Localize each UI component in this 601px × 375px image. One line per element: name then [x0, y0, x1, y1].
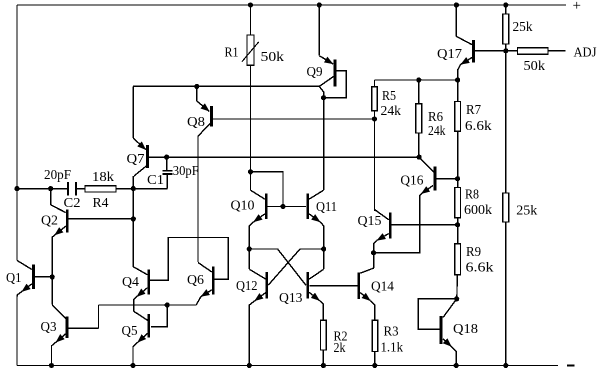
junction Q18 collector-base [454, 296, 459, 301]
transistor Q6 [212, 267, 215, 295]
capacitor C1 top plate [162, 170, 172, 172]
wire R3 bottom lead [374, 352, 376, 366]
wire to 50k resistor [506, 50, 518, 52]
wire R6 top lead [418, 80, 420, 104]
wire Q16 base [436, 178, 457, 180]
svg-text:Q16: Q16 [400, 174, 423, 189]
wire Q11 collector vertical [323, 98, 325, 191]
svg-text:20pF: 20pF [44, 168, 71, 183]
wire Q17 emitter lead [458, 64, 461, 80]
wire Q3 collector vertical [51, 277, 53, 305]
junction Q10 collector node [248, 169, 253, 174]
wire C1 top lead [166, 157, 168, 170]
wire Q2 collector vertical [50, 189, 52, 205]
junction R4 / Q7 collector / C1 [131, 186, 136, 191]
transistor Q2 [66, 209, 69, 232]
wire R7 top lead [457, 80, 459, 102]
wire 25k bottom lead [505, 44, 507, 51]
wire Q15 collector diagonal [375, 210, 389, 220]
wire Q13 emitter arrow [309, 292, 320, 300]
transistor Q10 [265, 193, 268, 219]
wire Q5 emitter arrow [138, 333, 148, 342]
wire Q18 base bracket [418, 299, 457, 330]
wire R5 bottom lead [374, 111, 376, 211]
svg-text:R7: R7 [466, 103, 481, 118]
resistor R3 [372, 320, 378, 351]
wire Q10 collector diagonal [251, 190, 265, 199]
svg-text:Q6: Q6 [187, 273, 204, 288]
transistor Q1 [32, 264, 35, 289]
junction Q9 base-collector [321, 95, 326, 100]
svg-text:50k: 50k [261, 50, 285, 65]
wire Q13 collector diagonal [309, 269, 324, 279]
junction Q3 emitter rail [49, 363, 54, 368]
junction ADJ rail bottom [503, 363, 508, 368]
svg-text:C2: C2 [64, 196, 81, 211]
junction Q8 emitter [194, 84, 199, 89]
wire Q16 collector diagonal [419, 157, 434, 172]
wire Q7 base [149, 156, 419, 158]
wire left rail upper [16, 5, 18, 260]
wire Q9 base bracket [324, 71, 347, 98]
junction Q12 collector node [247, 246, 252, 251]
wire ADJ rail vertical [505, 51, 507, 193]
wire Q11 emitter lead [320, 222, 324, 249]
wire Q18 emitter arrow [443, 339, 451, 347]
transistor Q7 [146, 145, 149, 168]
wire Q12 collector diagonal [249, 269, 266, 279]
wire Q8 collector diagonal [198, 124, 210, 137]
svg-text:R3: R3 [384, 325, 399, 340]
wire Q13 emitter lead [320, 301, 324, 321]
wire Q12 base cross link [268, 249, 324, 285]
transistor Q14 [357, 272, 360, 298]
wire Q15 base [392, 224, 458, 226]
resistor 25k lower [503, 193, 509, 222]
resistor R2 [321, 320, 327, 350]
svg-text:Q7: Q7 [127, 152, 145, 167]
junction left rail y189 [14, 186, 19, 191]
wire Q2 base [69, 218, 134, 220]
junction Q9 emitter top [317, 2, 322, 7]
transistor Q18 [440, 316, 443, 344]
wire Q17 collector vertical [455, 5, 457, 36]
wire R8 top lead [457, 179, 459, 188]
svg-text:1.1k: 1.1k [381, 341, 404, 356]
wire Q14 emitter arrow [360, 293, 370, 301]
svg-text:25k: 25k [516, 204, 537, 219]
wire Q15 emitter lead [374, 240, 377, 252]
wire Q3 base riser [98, 305, 100, 328]
wire top supply rail [17, 4, 566, 6]
wire Q3 base [68, 327, 98, 329]
wire ADJ lead [548, 50, 566, 52]
wire R9 bottom lead [456, 275, 458, 299]
wire 25k lower bottom lead [505, 222, 507, 366]
junction Q5 emitter rail [130, 363, 135, 368]
svg-text:R8: R8 [465, 188, 479, 203]
wire C2 to R4 [77, 188, 85, 190]
junction Q1 base / Q2 emitter [50, 274, 55, 279]
svg-text:Q14: Q14 [371, 280, 394, 295]
svg-text:Q10: Q10 [231, 199, 255, 214]
transistor Q13 [306, 272, 309, 299]
wire left to C2 [17, 188, 67, 190]
transistor Q4 [147, 270, 150, 295]
wire Q9 emitter vertical [318, 5, 320, 56]
svg-text:600k: 600k [464, 203, 492, 218]
wire Q5 collector diagonal [134, 311, 148, 320]
wire Q17 emitter arrow [461, 58, 472, 65]
wire Q18 collector diagonal [443, 299, 457, 318]
junction 25k top [503, 2, 508, 7]
svg-text:Q1: Q1 [6, 271, 22, 286]
svg-text:Q2: Q2 [41, 214, 58, 229]
wire Q1 base [35, 276, 52, 278]
wire Q17 base [475, 50, 506, 52]
wire Q16 emitter arrow [421, 186, 433, 194]
transistor Q15 [389, 212, 392, 238]
svg-text:R4: R4 [93, 196, 109, 211]
wire Q1 collector diagonal [17, 260, 32, 269]
wire Q8 emitter arrow [197, 101, 210, 111]
junction Q2 collector tap [48, 186, 53, 191]
wire R9 top lead [457, 225, 459, 244]
wire R1 adjust slash [242, 42, 259, 62]
svg-text:Q4: Q4 [122, 275, 139, 290]
wire Q3 emitter lead [52, 342, 56, 365]
wire Q10 collector drop [250, 172, 252, 190]
wire Q11 emitter arrow [309, 214, 320, 222]
wire Q14 collector vertical [373, 253, 375, 268]
wire bracket to Q10/Q11 base [251, 172, 284, 207]
wire Q15 emitter arrow [377, 234, 389, 241]
wire Q10 emitter lead [249, 222, 253, 249]
resistor 25k upper [503, 14, 509, 44]
junction R6 top [416, 77, 421, 82]
capacitor C2 left plate [67, 182, 69, 195]
svg-text:+: + [573, 0, 581, 14]
wire Q2-Q4 collector vertical [132, 176, 134, 267]
svg-text:R9: R9 [466, 245, 481, 260]
svg-text:24k: 24k [428, 124, 446, 139]
capacitor C2 right plate [75, 182, 77, 195]
junction Q15 emitter / Q14 collector [371, 250, 376, 255]
wire Q1 emitter lead [17, 292, 22, 297]
wire R8 bottom lead [457, 218, 459, 225]
node - (negative supply) [567, 365, 575, 367]
wire Q9 collector to base link [319, 86, 323, 97]
junction R6 bottom / Q7 base wire [417, 155, 422, 160]
junction Q13 collector node [321, 246, 326, 251]
junction Q12 emitter rail [247, 363, 252, 368]
transistor Q11 [306, 193, 309, 219]
svg-text:C1: C1 [147, 173, 164, 188]
wire Q12 collector vertical [248, 249, 250, 269]
wire R1 top lead [250, 5, 252, 35]
resistor 50k horizontal [518, 48, 549, 55]
wire Q13 collector vertical [323, 249, 325, 269]
wire Q17 collector diagonal [456, 36, 472, 44]
wire bottom rail [17, 365, 558, 367]
wire Q7 emitter arrow [133, 138, 146, 150]
wire Q14 emitter lead [370, 301, 374, 321]
wire Q9 emitter arrow [319, 56, 333, 64]
wire Q6 collector diagonal [198, 263, 212, 273]
svg-text:Q3: Q3 [41, 320, 57, 335]
junction Q16 base [455, 176, 460, 181]
resistor R7 [455, 101, 461, 131]
svg-text:Q8: Q8 [187, 115, 205, 130]
transistor Q17 [472, 40, 475, 63]
resistor R6 [416, 104, 422, 133]
wire bias node y80 [375, 79, 458, 81]
junction Q2 base [131, 216, 136, 221]
wire Q5 base bracket [151, 305, 167, 327]
svg-text:50k: 50k [524, 59, 546, 74]
wire Q8 emitter vertical [196, 86, 198, 101]
resistor R8 [455, 188, 461, 218]
wire Q13 base cross link [249, 249, 306, 285]
wire C1 bottom lead [166, 175, 168, 189]
wire Q4-Q6 base bracket [150, 238, 228, 281]
svg-text:Q13: Q13 [279, 291, 303, 306]
wire Q10 emitter arrow [254, 214, 265, 222]
wire Q13-Q14 base link [310, 285, 358, 287]
svg-text:R5: R5 [382, 89, 396, 104]
svg-text:Q12: Q12 [236, 279, 258, 294]
transistor Q9 [334, 60, 337, 87]
junction R8-R9 / Q15 base [455, 222, 460, 227]
resistor R5 [372, 87, 378, 111]
wire Q2 collector diagonal [51, 205, 66, 213]
transistor Q8 [210, 106, 213, 126]
junction ADJ node [503, 48, 508, 53]
wire Q12 emitter arrow [255, 293, 266, 301]
wire Q3 emitter arrow [56, 334, 66, 342]
transistor Q16 [434, 167, 437, 191]
wire Q2 emitter arrow [55, 226, 66, 235]
svg-text:Q5: Q5 [122, 324, 138, 339]
svg-text:24k: 24k [381, 104, 402, 119]
resistor R1 [247, 35, 254, 65]
svg-text:Q11: Q11 [316, 200, 337, 215]
transistor Q5 [147, 314, 150, 338]
wire Q9 collector diagonal [319, 77, 333, 87]
junction Q10-Q11 base [280, 204, 285, 209]
wire Q6 emitter arrow [201, 290, 212, 297]
svg-text:18k: 18k [92, 170, 114, 185]
wire Q5 emitter lead [133, 342, 138, 365]
wire 25k top lead [505, 5, 507, 14]
junction R1 top [248, 2, 253, 7]
junction R7 top / Q17 emitter [455, 77, 460, 82]
junction Q5 base tap [165, 302, 170, 307]
wire Q4 emitter arrow [137, 288, 148, 297]
resistor R4 [85, 186, 116, 192]
wire Q11 collector diagonal [309, 190, 324, 199]
wire R2 bottom lead [322, 350, 324, 366]
junction R2 bottom rail [321, 363, 326, 368]
wire Q8 base [213, 118, 375, 120]
wire Q6 emitter lead [196, 297, 201, 305]
svg-text:2k: 2k [334, 341, 346, 356]
resistor R9 [455, 244, 461, 275]
svg-text:30pF: 30pF [173, 164, 199, 179]
wire R4 to C1 node [116, 188, 167, 190]
svg-text:ADJ: ADJ [574, 46, 597, 61]
svg-text:Q18: Q18 [453, 322, 478, 337]
svg-text:R6: R6 [428, 110, 443, 125]
wire R5 top lead [374, 80, 376, 87]
junction Q17 collector top [454, 2, 459, 7]
wire Q10-Q11 base [268, 206, 306, 208]
wire node y86 [133, 85, 319, 87]
wire Q3 collector diagonal [52, 305, 65, 319]
svg-text:Q15: Q15 [358, 214, 382, 229]
wire Q2 emitter lead [52, 235, 54, 277]
wire Q1 emitter arrow [22, 284, 32, 292]
transistor Q3 [66, 317, 69, 339]
wire R1 bottom lead [250, 65, 252, 172]
wire Q8 collector vertical [197, 136, 199, 262]
svg-text:6.6k: 6.6k [465, 119, 492, 134]
wire Q4 collector diagonal [133, 267, 147, 275]
wire R6 bottom lead [418, 133, 420, 157]
svg-text:25k: 25k [513, 20, 533, 35]
wire Q12 emitter lead [249, 301, 254, 366]
wire Q18 emitter lead [451, 347, 456, 366]
wire R7 bottom lead [457, 131, 459, 179]
wire Q7 emitter vertical [132, 86, 134, 138]
wire Q14 collector diagonal [360, 268, 374, 273]
wire Q7 collector diagonal [134, 166, 146, 176]
capacitor C1 bottom plate [162, 173, 172, 175]
transistor Q12 [265, 272, 268, 299]
junction R5 bottom / Q8 base wire [372, 116, 377, 121]
svg-text:Q17: Q17 [437, 47, 462, 62]
junction C1 top [164, 155, 169, 160]
wire left rail lower [16, 295, 18, 366]
wire Q16 emitter routing [374, 194, 422, 253]
wire bias node y305 [99, 304, 197, 306]
svg-text:Q9: Q9 [307, 65, 323, 80]
svg-text:R1: R1 [225, 46, 239, 61]
svg-text:6.6k: 6.6k [466, 261, 494, 276]
wire Q4 emitter lead [134, 297, 137, 312]
junction R3 bottom rail [372, 363, 377, 368]
junction Q18 emitter rail [454, 363, 459, 368]
